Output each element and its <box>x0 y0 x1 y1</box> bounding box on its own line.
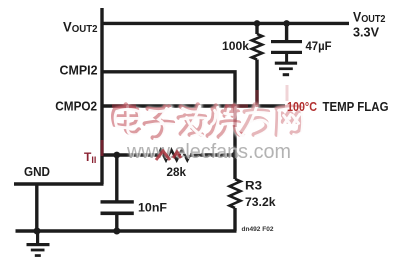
svg-text:CMPI2: CMPI2 <box>60 63 98 78</box>
svg-text:GND: GND <box>24 164 50 179</box>
svg-text:73.2k: 73.2k <box>245 195 276 209</box>
svg-text:3.3V: 3.3V <box>353 24 379 39</box>
svg-text:28k: 28k <box>167 165 187 179</box>
svg-text:100k: 100k <box>222 39 249 53</box>
svg-text:www.elecfans.com: www.elecfans.com <box>126 141 291 163</box>
svg-text:R3: R3 <box>245 179 262 193</box>
svg-text:10nF: 10nF <box>138 201 167 215</box>
svg-text:CMPO2: CMPO2 <box>55 98 97 113</box>
svg-text:47µF: 47µF <box>306 39 332 53</box>
svg-text:TEMP FLAG: TEMP FLAG <box>323 100 389 114</box>
svg-text:dn492 F02: dn492 F02 <box>242 226 275 233</box>
svg-text:100°C: 100°C <box>287 100 317 114</box>
